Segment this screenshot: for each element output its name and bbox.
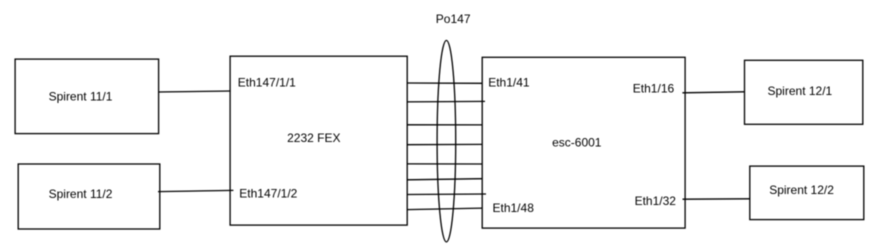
svg-text:Spirent 11/2: Spirent 11/2 (49, 187, 113, 201)
svg-text:Spirent 12/1: Spirent 12/1 (768, 84, 833, 98)
svg-text:Eth1/48: Eth1/48 (493, 201, 535, 215)
wire fabric link 4 (407, 143, 482, 145)
svg-text:Eth1/41: Eth1/41 (488, 75, 530, 89)
wire fabric link 7 (407, 193, 486, 196)
svg-text:2232 FEX: 2232 FEX (287, 131, 340, 145)
wire fabric link 8 (407, 208, 482, 210)
wire fabric link 5 (407, 163, 482, 165)
svg-text:Eth1/32: Eth1/32 (635, 194, 677, 208)
box Spirent 12/2 (750, 166, 864, 220)
svg-text:Spirent 12/2: Spirent 12/2 (769, 183, 834, 197)
box 2232 FEX (230, 56, 407, 225)
wire esc to Spirent 12/2 (683, 198, 750, 200)
box Spirent 11/1 (15, 59, 159, 134)
box Spirent 11/2 (18, 164, 160, 229)
svg-text:Eth1/16: Eth1/16 (633, 81, 675, 95)
wire esc to Spirent 12/1 (682, 92, 744, 93)
wire Spirent 11/2 to FEX (158, 190, 233, 191)
svg-text:Eth147/1/2: Eth147/1/2 (239, 187, 297, 201)
wire fabric link 6 (407, 179, 482, 180)
ellipse Po147 port-channel (437, 40, 456, 242)
wire fabric link 1 (407, 82, 482, 84)
wire fabric link 3 (407, 124, 482, 126)
svg-text:Po147: Po147 (436, 12, 471, 26)
svg-text:Spirent 11/1: Spirent 11/1 (49, 90, 113, 104)
box Spirent 12/1 (745, 60, 863, 124)
svg-text:esc-6001: esc-6001 (552, 136, 602, 150)
box esc-6001 (482, 57, 685, 228)
wire fabric link 2 (407, 100, 485, 103)
wire Spirent 11/1 to FEX (159, 91, 231, 92)
svg-text:Eth147/1/1: Eth147/1/1 (238, 75, 296, 89)
